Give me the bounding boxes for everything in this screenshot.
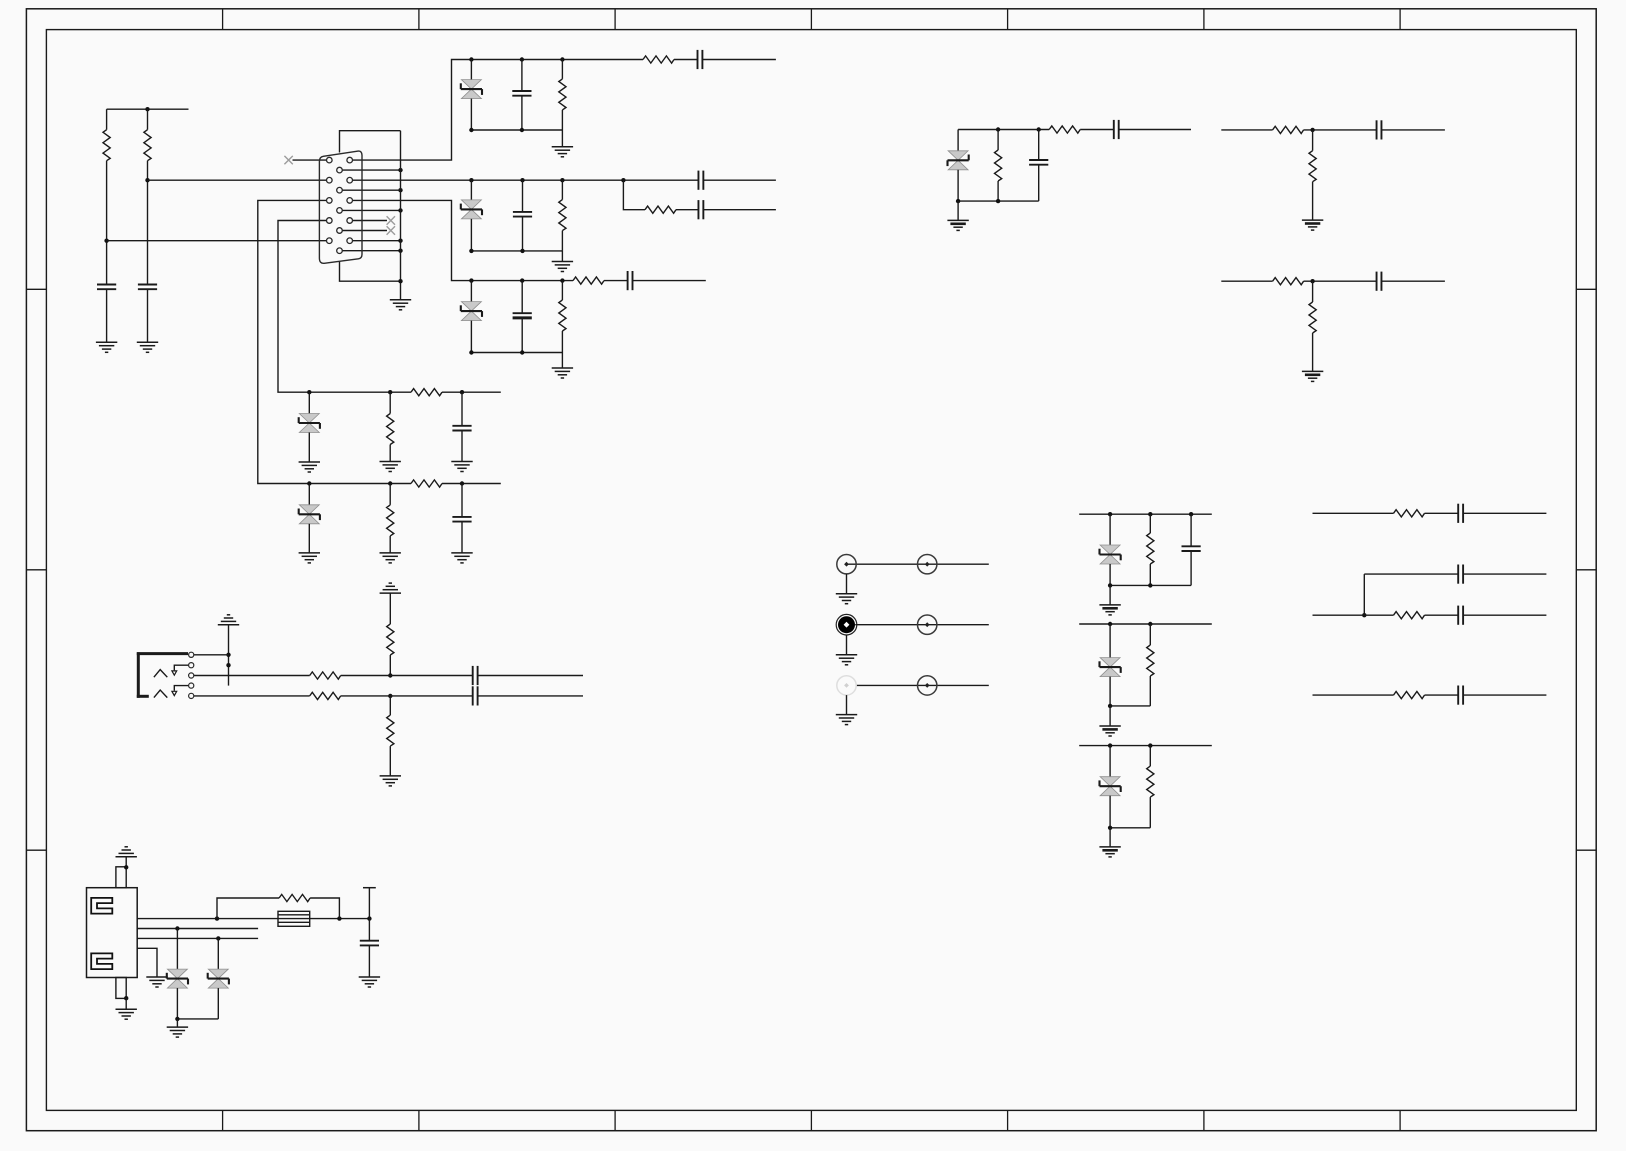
- connector J3 shield tab bottom: [116, 978, 126, 999]
- junction: [175, 926, 179, 930]
- wire: [1312, 281, 1314, 302]
- wire pin to shield bus: [340, 250, 401, 252]
- wire TR1 bottom: [958, 200, 1039, 202]
- ground: [380, 776, 401, 786]
- wire GC top: [1079, 745, 1212, 747]
- wire USB row2: [137, 928, 258, 930]
- wire: [561, 331, 563, 353]
- resistor R25: [1147, 766, 1154, 797]
- wire TP row2: [855, 624, 989, 626]
- capacitor C11: [452, 517, 471, 522]
- wire FR2 upper: [1364, 573, 1458, 575]
- wire pin to S3 feed: [350, 200, 472, 280]
- no-connect X: [284, 156, 292, 164]
- resistor R4: [643, 56, 674, 63]
- ground: [836, 594, 857, 604]
- resistor R28: [1394, 692, 1425, 699]
- junction: [388, 481, 392, 485]
- junction: [1108, 583, 1112, 587]
- wire: [1109, 624, 1111, 658]
- junction: [145, 178, 149, 182]
- connector J3 contact glyph bottom: [91, 953, 112, 969]
- wire: [1109, 514, 1111, 545]
- wire TR1 top: [958, 129, 1049, 131]
- connector J3 shield tab top: [116, 867, 126, 888]
- TVS diode D1: [461, 80, 482, 99]
- capacitor C16: [473, 666, 478, 685]
- junction: [175, 1017, 179, 1021]
- capacitor C4: [698, 50, 703, 69]
- wire: [1038, 130, 1040, 161]
- resistor R6: [645, 206, 676, 213]
- ground shield: [390, 300, 411, 310]
- capacitor C14: [1377, 120, 1382, 139]
- wire: [308, 433, 310, 463]
- ground: [359, 977, 380, 987]
- wire FR3 in: [1313, 694, 1394, 696]
- wire pin row left-down to S5: [258, 200, 330, 483]
- wire: [1190, 551, 1192, 585]
- wire: [461, 522, 463, 553]
- wire TP row1: [847, 563, 989, 565]
- capacitor C23: [360, 941, 379, 946]
- resistor R27: [1394, 612, 1425, 619]
- wire TVS join: [177, 1018, 218, 1020]
- wire pin to shield bus: [350, 240, 401, 242]
- junction: [398, 208, 402, 212]
- wire: [461, 392, 463, 426]
- wire: [368, 945, 370, 977]
- wire pin to S2 top: [350, 179, 698, 181]
- junction: [398, 168, 402, 172]
- wire: [1463, 694, 1546, 696]
- junction: [996, 199, 1000, 203]
- wire: [470, 99, 472, 130]
- wire: [604, 280, 628, 282]
- wire TP row3: [856, 684, 989, 686]
- junction: [398, 188, 402, 192]
- wire: [957, 201, 959, 220]
- ground: [836, 715, 857, 725]
- wire: [522, 217, 524, 251]
- wire: [147, 289, 149, 342]
- wire: [676, 209, 698, 211]
- connector J3 USB body: [87, 888, 138, 978]
- ground: [299, 462, 320, 472]
- wire: [1109, 706, 1111, 726]
- junction: [469, 350, 473, 354]
- wire: [106, 161, 108, 285]
- resistor R23: [1147, 533, 1154, 564]
- junction: [145, 107, 149, 111]
- wire: [1109, 585, 1111, 605]
- ground: [836, 655, 857, 665]
- wire: [389, 392, 391, 413]
- wire: [308, 524, 310, 553]
- ground above R19: [380, 583, 401, 593]
- TVS diode D9: [1100, 777, 1121, 796]
- wire: [461, 431, 463, 462]
- wire: [561, 353, 563, 369]
- wire no-connect stub: [340, 230, 388, 232]
- wire pin ring line: [191, 695, 310, 697]
- resistor R9: [387, 414, 394, 445]
- wire bypass: [217, 898, 279, 919]
- wire T terminal: [368, 888, 370, 919]
- resistor R18: [1309, 302, 1316, 333]
- junction: [560, 178, 564, 182]
- wire: [389, 746, 391, 776]
- junction: [1108, 743, 1112, 747]
- wire GA top: [1079, 513, 1212, 515]
- junction: [104, 239, 108, 243]
- wire: [1463, 614, 1546, 616]
- wire: [846, 574, 848, 594]
- wire: [470, 180, 472, 200]
- wire: [470, 219, 472, 251]
- junction: [226, 653, 230, 657]
- wire: [633, 280, 706, 282]
- wire: [521, 96, 523, 130]
- resistor R1: [103, 130, 110, 161]
- resistor R17: [1273, 278, 1304, 285]
- junction: [388, 694, 392, 698]
- wire ring line mid: [341, 695, 473, 697]
- junction: [398, 279, 402, 283]
- wire shield top: [340, 131, 401, 153]
- wire FR1 in: [1313, 512, 1394, 514]
- wire: [470, 60, 472, 80]
- wire: [1109, 564, 1111, 585]
- wire: [957, 130, 959, 151]
- switch arrow: [172, 691, 177, 695]
- wire: [1109, 746, 1111, 777]
- wire: [1190, 514, 1192, 546]
- junction: [124, 865, 128, 869]
- capacitor C17: [473, 686, 478, 705]
- wire pin switch D: [174, 686, 191, 691]
- wire: [389, 445, 391, 462]
- resistor R8: [573, 277, 604, 284]
- test point TP3 (filled): [836, 614, 857, 635]
- wire: [1304, 280, 1377, 282]
- wire: [561, 110, 563, 130]
- wire: [521, 60, 523, 92]
- ground: [167, 1027, 188, 1037]
- wire pin to shield bus: [340, 209, 401, 211]
- connector J3 contact glyph top: [91, 898, 112, 914]
- capacitor C9: [628, 271, 633, 290]
- capacitor C1: [97, 285, 116, 290]
- junction: [216, 936, 220, 940]
- wire: [217, 988, 219, 1019]
- wire: [522, 180, 524, 212]
- junction: [1037, 127, 1041, 131]
- junction: [1148, 622, 1152, 626]
- wire S1 bottom: [471, 129, 562, 131]
- TVS diode D7: [1100, 545, 1121, 564]
- junction: [124, 996, 128, 1000]
- junction: [469, 278, 473, 282]
- wire: [308, 484, 310, 505]
- wire: [561, 60, 563, 79]
- wire USB row3: [137, 937, 258, 939]
- wire S1 top: [471, 59, 643, 61]
- wire: [1149, 514, 1151, 533]
- TVS diode D2: [461, 200, 482, 219]
- capacitor C19: [1458, 504, 1463, 523]
- junction: [996, 127, 1000, 131]
- resistor R29: [279, 894, 310, 901]
- wire pin to shield bus: [340, 169, 401, 171]
- TVS diode D5: [299, 505, 320, 524]
- test point TP6: [918, 676, 937, 695]
- wire: [1312, 130, 1314, 151]
- wire: [1312, 182, 1314, 220]
- resistor R2: [144, 130, 151, 161]
- ground: [451, 553, 472, 563]
- border top tick marks: [223, 9, 1401, 30]
- ground: [380, 553, 401, 563]
- wire shield bus: [400, 131, 402, 300]
- wire: [1109, 677, 1111, 706]
- wire: [561, 281, 563, 300]
- ground: [299, 553, 320, 563]
- wire: [1425, 694, 1459, 696]
- ground: [146, 977, 167, 987]
- wire S3 bottom: [471, 352, 562, 354]
- resistor R14: [1049, 126, 1080, 133]
- wire: [1463, 573, 1546, 575]
- junction: [520, 178, 524, 182]
- junction: [460, 390, 464, 394]
- wire: [106, 109, 108, 130]
- no-connect X: [387, 216, 395, 224]
- wire: [1119, 129, 1191, 131]
- wire: [1109, 796, 1111, 828]
- wire: [442, 391, 501, 393]
- wire: [561, 251, 563, 262]
- TVS diode D6: [948, 151, 969, 170]
- border right tick marks: [1576, 289, 1596, 850]
- wire: [389, 696, 391, 715]
- wire: [1149, 797, 1151, 828]
- resistor R21: [387, 715, 394, 746]
- wire: [1109, 828, 1111, 847]
- jack tip contact chevron: [154, 670, 167, 678]
- wire GB bottom: [1110, 705, 1150, 707]
- wire: [308, 392, 310, 413]
- capacitor C15: [1377, 272, 1382, 291]
- ground: [1099, 847, 1120, 857]
- capacitor C13: [1114, 120, 1119, 139]
- resistor R22: [310, 692, 341, 699]
- capacitor C22: [1458, 686, 1463, 705]
- junction: [1108, 512, 1112, 516]
- wire: [389, 484, 391, 505]
- wire GA bottom: [1110, 584, 1191, 586]
- ground: [1099, 605, 1120, 615]
- capacitor C10: [452, 426, 471, 431]
- capacitor C3: [512, 91, 531, 96]
- wire: [1382, 129, 1445, 131]
- junction: [560, 57, 564, 61]
- wire jack bus: [228, 625, 230, 686]
- ground: [137, 342, 158, 352]
- junction: [215, 916, 219, 920]
- wire: [368, 919, 370, 941]
- wire pin to shield bus: [340, 189, 401, 191]
- wire pin row left-down to S4: [278, 221, 329, 393]
- wire: [176, 929, 178, 970]
- terminal T bar: [363, 887, 376, 889]
- wire no-connect stub: [293, 159, 330, 161]
- TVS diode D10: [167, 969, 188, 988]
- wire: [147, 109, 149, 130]
- wire: [389, 655, 391, 676]
- ferrite bead FB1: [278, 911, 310, 926]
- capacitor C21: [1458, 606, 1463, 625]
- junction: [307, 481, 311, 485]
- wire: [470, 321, 472, 353]
- wire: [176, 1019, 178, 1027]
- wire GC bottom: [1110, 827, 1150, 829]
- wire: [846, 635, 848, 655]
- wire S2 branch: [623, 180, 645, 210]
- wire FR2 lower in: [1313, 614, 1394, 616]
- resistor R3: [559, 79, 566, 110]
- ground: [1099, 726, 1120, 736]
- border left tick marks: [26, 289, 46, 850]
- junction: [469, 57, 473, 61]
- wire TR2 in: [1221, 129, 1272, 131]
- junction: [621, 178, 625, 182]
- wire: [1149, 624, 1151, 645]
- junction: [1108, 704, 1112, 708]
- junction: [388, 673, 392, 677]
- ground: [552, 262, 573, 272]
- wire: [389, 536, 391, 553]
- ground: [116, 1009, 137, 1019]
- wire GB top: [1079, 623, 1212, 625]
- test point TP5 (ghost): [837, 676, 856, 695]
- junction: [1148, 743, 1152, 747]
- wire pin sleeve: [191, 654, 228, 656]
- resistor R15: [1273, 126, 1304, 133]
- wire: [1149, 564, 1151, 585]
- junction: [520, 350, 524, 354]
- wire: [1312, 333, 1314, 371]
- junction: [337, 916, 341, 920]
- connector J2 jack pins: [189, 652, 194, 698]
- wire: [846, 695, 848, 715]
- wire: [125, 857, 127, 867]
- junction: [520, 278, 524, 282]
- junction: [520, 128, 524, 132]
- junction: [398, 249, 402, 253]
- wire: [702, 59, 776, 61]
- TVS diode D4: [299, 414, 320, 433]
- wire: [1038, 165, 1040, 201]
- wire USB row4: [137, 948, 157, 977]
- junction: [398, 239, 402, 243]
- wire shield bottom: [340, 262, 401, 282]
- junction: [307, 390, 311, 394]
- connector J1 VGA DB15 body and pins: [319, 151, 362, 263]
- TVS diode D11: [208, 969, 229, 988]
- resistor R12: [411, 480, 442, 487]
- junction: [469, 249, 473, 253]
- capacitor C18: [1182, 546, 1201, 551]
- wire: [1304, 129, 1377, 131]
- resistor R20: [310, 672, 341, 679]
- ground: [552, 368, 573, 378]
- resistor R10: [411, 389, 442, 396]
- ground: [96, 342, 117, 352]
- wire: [470, 281, 472, 302]
- resistor R16: [1309, 151, 1316, 182]
- wire: [389, 593, 391, 624]
- wire: [703, 209, 776, 211]
- wire: [997, 181, 999, 201]
- wire: [561, 231, 563, 251]
- wire TR3 in: [1221, 280, 1272, 282]
- wire: [1425, 614, 1459, 616]
- connector J2 jack body: [137, 652, 188, 698]
- capacitor C5: [513, 212, 532, 217]
- switch arrow: [172, 671, 177, 675]
- wire: [310, 898, 339, 919]
- wire: [461, 484, 463, 517]
- wire: [1382, 280, 1445, 282]
- wire: [1149, 676, 1151, 706]
- ground: [380, 462, 401, 472]
- resistor R7: [559, 300, 566, 331]
- wire: [125, 998, 127, 1009]
- junction: [388, 390, 392, 394]
- wire: [674, 59, 698, 61]
- capacitor C8: [513, 313, 532, 318]
- junction: [520, 57, 524, 61]
- capacitor C2: [138, 285, 157, 290]
- resistor R24: [1147, 645, 1154, 676]
- junction: [367, 916, 371, 920]
- junction: [226, 663, 230, 667]
- wire: [997, 130, 999, 151]
- wire S5 top: [309, 483, 411, 485]
- wire: [1080, 129, 1114, 131]
- wire top stub: [107, 108, 189, 110]
- wire: [1463, 512, 1546, 514]
- resistor R13: [995, 150, 1002, 181]
- ground: [451, 462, 472, 472]
- ground: [552, 147, 573, 157]
- ground: [1302, 371, 1323, 381]
- wire: [442, 483, 501, 485]
- wire tip line out: [478, 675, 583, 677]
- jack ring contact chevron: [154, 690, 167, 698]
- wire: [1149, 746, 1151, 767]
- junction: [1362, 613, 1366, 617]
- wire pin switch B: [174, 665, 191, 670]
- wire tip line mid: [341, 675, 473, 677]
- wire pin row to R2: [148, 179, 330, 181]
- junction: [1310, 128, 1314, 132]
- wire: [1425, 512, 1459, 514]
- junction: [460, 481, 464, 485]
- junction: [560, 278, 564, 282]
- junction: [1148, 583, 1152, 587]
